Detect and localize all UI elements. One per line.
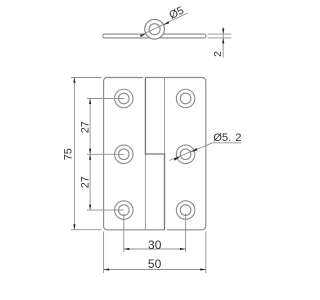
svg-text:30: 30 <box>148 238 162 252</box>
svg-text:27: 27 <box>80 121 92 133</box>
svg-text:50: 50 <box>148 257 162 271</box>
svg-text:Ø5.2: Ø5.2 <box>213 132 241 144</box>
svg-text:27: 27 <box>80 176 92 188</box>
svg-text:75: 75 <box>63 148 75 160</box>
svg-text:2: 2 <box>212 51 224 57</box>
